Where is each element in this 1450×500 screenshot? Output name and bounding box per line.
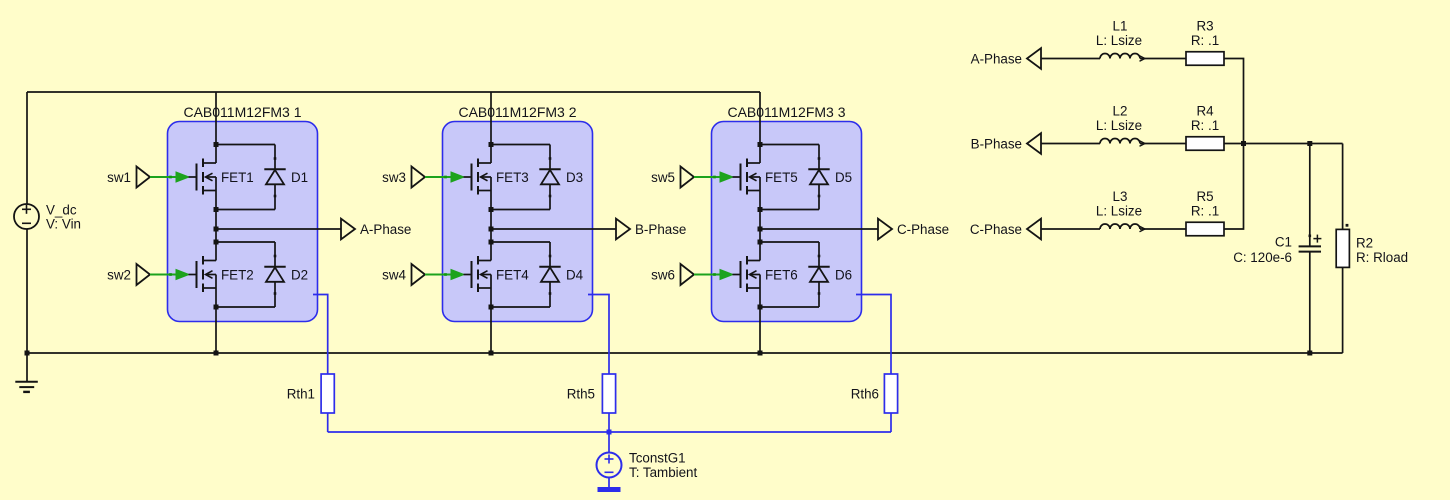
port sw2 (107, 264, 150, 285)
inductor L2 (1100, 139, 1145, 147)
svg-text:FET6: FET6 (765, 267, 798, 282)
diode D1 (264, 145, 285, 210)
svg-text:R4: R4 (1196, 104, 1214, 119)
node module bottom (214, 351, 219, 356)
wire R3 to merge bus (1224, 59, 1244, 144)
node source lower (214, 305, 219, 310)
wire source rail mid (490, 191, 492, 261)
wire drain rail upper cell (759, 92, 761, 163)
wire thermal bus (328, 431, 891, 433)
port A-Phase load side (971, 48, 1041, 69)
ground thermal (598, 487, 621, 492)
svg-text:L2: L2 (1113, 104, 1128, 119)
node capacitor bottom (1307, 351, 1312, 356)
svg-text:sw6: sw6 (651, 267, 675, 282)
node drain lower (489, 240, 494, 245)
node capacitor tap (1307, 141, 1312, 146)
wire B-Phase to inductor (1041, 143, 1100, 145)
source TconstG1 (597, 453, 622, 478)
module CAB011M12FM3 1 (168, 122, 318, 322)
transistor FET2 (189, 256, 217, 292)
transistor FET4 (464, 256, 492, 292)
svg-text:sw5: sw5 (651, 170, 675, 185)
svg-text:L: Lsize: L: Lsize (1096, 33, 1142, 48)
wire left rail lower (26, 229, 28, 353)
wire Rth5 to thermal bus (608, 413, 610, 432)
diode D6 (808, 242, 829, 307)
svg-text:C-Phase: C-Phase (970, 222, 1022, 237)
node source lower (489, 305, 494, 310)
wire R5 to merge bus (1224, 144, 1244, 230)
node source lower (758, 305, 763, 310)
svg-text:D6: D6 (835, 267, 852, 282)
wire from diode anode lower (216, 306, 275, 308)
module CAB011M12FM3 2 (443, 122, 593, 322)
wire Rth1 to thermal bus (327, 413, 329, 432)
wire C-Phase to inductor (1041, 228, 1100, 230)
svg-text:CAB011M12FM3 2: CAB011M12FM3 2 (458, 104, 576, 120)
port C-Phase load side (970, 219, 1041, 240)
wire source rail lower (490, 288, 492, 353)
wire from diode anode upper (216, 209, 275, 211)
port sw5 (651, 167, 694, 188)
node phase midpoint C-Phase (758, 227, 763, 232)
svg-text:L: Lsize: L: Lsize (1096, 203, 1142, 218)
wire bottom DC bus (27, 352, 1343, 354)
svg-text:C: 120e-6: C: 120e-6 (1233, 250, 1292, 265)
inductor L3 (1100, 224, 1145, 232)
wire source rail mid (215, 191, 217, 261)
node source upper (489, 207, 494, 212)
transistor FET3 (464, 159, 492, 195)
transistor FET5 (733, 159, 761, 195)
wire thermal from module to Rth6 (856, 295, 891, 375)
resistor R3 (1186, 52, 1224, 66)
resistor R2 (1336, 224, 1349, 268)
svg-text:C-Phase: C-Phase (897, 222, 949, 237)
node module bottom (758, 351, 763, 356)
node drain upper (489, 142, 494, 147)
svg-text:L1: L1 (1113, 19, 1128, 34)
wire Rth6 to thermal bus (890, 413, 892, 432)
svg-text:L3: L3 (1113, 189, 1128, 204)
svg-text:A-Phase: A-Phase (360, 222, 411, 237)
svg-text:FET5: FET5 (765, 170, 798, 185)
resistor Rth5 (602, 374, 615, 413)
wire from diode anode lower (491, 306, 550, 308)
resistor Rth1 (321, 374, 334, 413)
wire from diode anode lower (760, 306, 819, 308)
port sw3 (382, 167, 425, 188)
wire thermal from module to Rth5 (588, 295, 609, 375)
svg-text:D1: D1 (291, 170, 308, 185)
svg-text:V_dc: V_dc (46, 202, 77, 217)
node source upper (214, 207, 219, 212)
transistor FET1 (189, 159, 217, 195)
wire to diode cathode upper (760, 144, 819, 146)
port sw1 (107, 167, 150, 188)
svg-text:D3: D3 (566, 170, 583, 185)
wire source rail mid (759, 191, 761, 261)
inductor L1 (1100, 54, 1145, 62)
wire inductor to R3 (1140, 58, 1186, 60)
wire R4 to output node (1224, 143, 1343, 145)
port B-Phase output (616, 219, 686, 240)
svg-text:R5: R5 (1196, 189, 1213, 204)
svg-text:D5: D5 (835, 170, 852, 185)
svg-text:Rth5: Rth5 (567, 386, 595, 401)
ground (15, 353, 38, 392)
wire TconstG1 to thermal ground (608, 478, 610, 488)
node phase midpoint A-Phase (214, 227, 219, 232)
wire inductor to R5 (1140, 228, 1186, 230)
svg-text:B-Phase: B-Phase (971, 136, 1022, 151)
svg-text:R3: R3 (1196, 19, 1213, 34)
svg-text:sw1: sw1 (107, 170, 131, 185)
svg-text:sw3: sw3 (382, 170, 406, 185)
svg-text:T: Tambient: T: Tambient (629, 465, 698, 480)
wire source rail lower (215, 288, 217, 353)
port B-Phase load side (971, 133, 1041, 154)
wire left rail upper (26, 92, 28, 204)
diode D4 (539, 242, 560, 307)
svg-text:L: Lsize: L: Lsize (1096, 118, 1142, 133)
capacitor C1 (1299, 144, 1322, 354)
svg-text:R: Rload: R: Rload (1356, 250, 1408, 265)
wire thermal from module to Rth1 (313, 295, 328, 375)
svg-text:sw4: sw4 (382, 267, 406, 282)
resistor Rth6 (884, 374, 897, 413)
wire to diode cathode lower (491, 241, 550, 243)
node drain lower (758, 240, 763, 245)
port sw4 (382, 264, 425, 285)
wire gate signal sw2 (150, 270, 189, 280)
port A-Phase output (341, 219, 411, 240)
svg-text:D2: D2 (291, 267, 308, 282)
svg-text:A-Phase: A-Phase (971, 51, 1022, 66)
node merge bus (1241, 141, 1246, 146)
wire from diode anode upper (760, 209, 819, 211)
wire to diode cathode lower (760, 241, 819, 243)
transistor FET6 (733, 256, 761, 292)
wire to R2 top (1342, 144, 1344, 230)
node drain lower (214, 240, 219, 245)
diode D5 (808, 145, 829, 210)
svg-text:sw2: sw2 (107, 267, 131, 282)
svg-text:R: .1: R: .1 (1191, 33, 1219, 48)
node left bottom (25, 351, 30, 356)
svg-text:R: .1: R: .1 (1191, 203, 1219, 218)
wire from diode anode upper (491, 209, 550, 211)
diode D3 (539, 145, 560, 210)
wire A-Phase to inductor (1041, 58, 1100, 60)
resistor R5 (1186, 222, 1224, 236)
wire thermal bus to TconstG1 (608, 432, 610, 453)
svg-text:R2: R2 (1356, 235, 1373, 250)
svg-text:FET1: FET1 (221, 170, 254, 185)
node drain upper (214, 142, 219, 147)
port sw6 (651, 264, 694, 285)
svg-text:D4: D4 (566, 267, 584, 282)
node drain upper (758, 142, 763, 147)
svg-text:CAB011M12FM3 1: CAB011M12FM3 1 (183, 104, 301, 120)
wire drain rail upper cell (215, 92, 217, 163)
wire gate signal sw3 (425, 172, 464, 182)
wire phase output A-Phase (216, 228, 341, 230)
svg-text:Rth6: Rth6 (851, 386, 879, 401)
node module bottom (489, 351, 494, 356)
wire drain rail upper cell (490, 92, 492, 163)
wire to diode cathode upper (216, 144, 275, 146)
svg-text:C1: C1 (1275, 234, 1292, 249)
voltage source V_dc (14, 204, 39, 229)
wire top DC bus (27, 91, 760, 93)
wire to diode cathode upper (491, 144, 550, 146)
svg-text:FET3: FET3 (496, 170, 529, 185)
diode D2 (264, 242, 285, 307)
module CAB011M12FM3 3 (712, 122, 862, 322)
node source upper (758, 207, 763, 212)
svg-text:FET4: FET4 (496, 267, 529, 282)
svg-text:B-Phase: B-Phase (635, 222, 686, 237)
wire phase output B-Phase (491, 228, 616, 230)
wire phase output C-Phase (760, 228, 878, 230)
svg-text:FET2: FET2 (221, 267, 254, 282)
wire source rail lower (759, 288, 761, 353)
wire gate signal sw6 (694, 270, 733, 280)
wire gate signal sw1 (150, 172, 189, 182)
node phase midpoint B-Phase (489, 227, 494, 232)
svg-text:R: .1: R: .1 (1191, 118, 1219, 133)
port C-Phase output (878, 219, 949, 240)
resistor R4 (1186, 137, 1224, 151)
wire R2 bottom (1342, 267, 1344, 353)
wire gate signal sw5 (694, 172, 733, 182)
node thermal bus (607, 430, 612, 435)
svg-text:TconstG1: TconstG1 (629, 450, 686, 465)
wire to diode cathode lower (216, 241, 275, 243)
wire gate signal sw4 (425, 270, 464, 280)
svg-text:Rth1: Rth1 (287, 386, 315, 401)
wire inductor to R4 (1140, 143, 1186, 145)
svg-text:CAB011M12FM3 3: CAB011M12FM3 3 (727, 104, 845, 120)
svg-text:V: Vin: V: Vin (46, 217, 81, 232)
